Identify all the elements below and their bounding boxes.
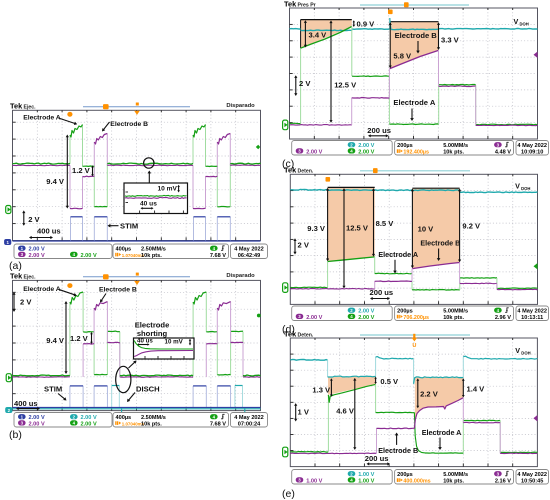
svg-text:10 mV: 10 mV xyxy=(158,186,178,193)
svg-text:Tek: Tek xyxy=(284,330,297,339)
svg-text:1 V: 1 V xyxy=(298,408,310,417)
svg-text:2.00 V: 2.00 V xyxy=(29,415,45,421)
svg-text:1.4 V: 1.4 V xyxy=(467,385,486,394)
svg-text:400µs: 400µs xyxy=(116,247,132,253)
svg-text:Tek: Tek xyxy=(284,165,297,174)
svg-text:DISCH: DISCH xyxy=(136,385,160,394)
svg-text:DOH: DOH xyxy=(521,350,530,355)
svg-text:10k pts.: 10k pts. xyxy=(443,478,464,484)
svg-text:2.00 V: 2.00 V xyxy=(358,315,374,321)
svg-text:10 V: 10 V xyxy=(418,225,435,234)
svg-text:Tek: Tek xyxy=(10,272,23,281)
svg-text:200 us: 200 us xyxy=(370,288,394,297)
svg-text:5.00MM/s: 5.00MM/s xyxy=(443,143,468,149)
svg-text:2.2 V: 2.2 V xyxy=(420,390,439,399)
svg-text:0.9 V: 0.9 V xyxy=(357,20,376,29)
svg-text:STIM: STIM xyxy=(44,385,62,394)
svg-text:3.4 V: 3.4 V xyxy=(309,31,328,40)
svg-text:Ejec.: Ejec. xyxy=(24,104,37,110)
svg-text:400 us: 400 us xyxy=(14,399,38,408)
svg-text:200µs: 200µs xyxy=(397,143,413,149)
svg-text:2.96 V: 2.96 V xyxy=(495,315,511,321)
svg-text:10k pts.: 10k pts. xyxy=(443,315,464,321)
svg-text:4 May 2022: 4 May 2022 xyxy=(234,415,264,421)
svg-text:2.50MM/s: 2.50MM/s xyxy=(141,247,166,253)
svg-text:7.68 V: 7.68 V xyxy=(210,253,226,259)
svg-text:Disparado: Disparado xyxy=(226,273,255,279)
svg-text:2.00 V: 2.00 V xyxy=(81,415,97,421)
svg-text:5.00MM/s: 5.00MM/s xyxy=(443,472,468,478)
svg-text:8.5 V: 8.5 V xyxy=(376,219,395,228)
svg-text:2.00 V: 2.00 V xyxy=(306,149,322,155)
svg-text:1.00 V: 1.00 V xyxy=(358,472,374,478)
svg-text:1.3 V: 1.3 V xyxy=(312,386,331,395)
svg-text:12.5 V: 12.5 V xyxy=(346,224,369,233)
svg-text:Disparado: Disparado xyxy=(226,103,255,109)
svg-text:9.3 V: 9.3 V xyxy=(307,224,326,233)
svg-text:10:50:45: 10:50:45 xyxy=(521,478,543,484)
svg-text:Electrode B: Electrode B xyxy=(420,239,460,248)
svg-text:2.00 V: 2.00 V xyxy=(358,143,374,149)
svg-text:DOH: DOH xyxy=(520,22,529,27)
svg-text:V: V xyxy=(515,346,520,355)
svg-text:Electrode B: Electrode B xyxy=(395,31,438,40)
svg-text:200 us: 200 us xyxy=(365,454,389,463)
svg-text:Electrode B: Electrode B xyxy=(110,121,148,128)
svg-text:2 V: 2 V xyxy=(28,215,40,224)
svg-text:4 May 2022: 4 May 2022 xyxy=(517,143,547,149)
svg-text:2 V: 2 V xyxy=(299,79,311,88)
svg-text:Tek: Tek xyxy=(284,0,297,9)
svg-text:9.4 V: 9.4 V xyxy=(46,336,65,345)
svg-text:1.2 V: 1.2 V xyxy=(72,166,91,175)
svg-text:2.00 V: 2.00 V xyxy=(29,421,45,427)
svg-text:40 us: 40 us xyxy=(137,338,153,345)
svg-text:2.00 V: 2.00 V xyxy=(358,149,374,155)
svg-text:Electrode A: Electrode A xyxy=(393,98,435,107)
svg-text:4 May 2022: 4 May 2022 xyxy=(517,309,547,315)
svg-text:Electrode A: Electrode A xyxy=(23,286,61,293)
svg-text:4 May 2022: 4 May 2022 xyxy=(517,472,547,478)
svg-text:12.5 V: 12.5 V xyxy=(334,81,357,90)
svg-text:(e): (e) xyxy=(282,488,295,500)
svg-text:200µs: 200µs xyxy=(397,472,413,478)
svg-text:V: V xyxy=(514,17,519,26)
svg-text:4 May 2022: 4 May 2022 xyxy=(234,247,264,253)
svg-text:4.48 V: 4.48 V xyxy=(495,149,511,155)
svg-text:40 us: 40 us xyxy=(140,201,157,208)
svg-text:Electrode A: Electrode A xyxy=(378,250,418,259)
svg-text:U: U xyxy=(412,343,416,349)
svg-text:2.00 V: 2.00 V xyxy=(306,315,322,321)
svg-text:400.000ms: 400.000ms xyxy=(403,478,430,484)
svg-text:200µs: 200µs xyxy=(397,309,413,315)
svg-text:Tek: Tek xyxy=(10,101,23,110)
svg-text:400µs: 400µs xyxy=(116,415,132,421)
svg-text:2.00 V: 2.00 V xyxy=(358,309,374,315)
svg-text:1.00 V: 1.00 V xyxy=(306,478,322,484)
svg-text:Deten.: Deten. xyxy=(298,168,314,174)
svg-text:200 us: 200 us xyxy=(367,126,391,135)
svg-text:10 mV: 10 mV xyxy=(165,338,184,345)
svg-text:10:13:11: 10:13:11 xyxy=(521,315,543,321)
svg-text:9.2 V: 9.2 V xyxy=(462,222,481,231)
svg-text:400 us: 400 us xyxy=(37,227,61,236)
svg-text:4.6 V: 4.6 V xyxy=(336,407,355,416)
svg-text:7.68 V: 7.68 V xyxy=(210,421,226,427)
svg-text:0.5 V: 0.5 V xyxy=(380,377,399,386)
svg-text:STIM: STIM xyxy=(120,222,138,231)
svg-text:10k pts.: 10k pts. xyxy=(141,253,162,259)
svg-text:5.8 V: 5.8 V xyxy=(393,52,412,61)
svg-text:9.4 V: 9.4 V xyxy=(46,177,65,186)
svg-text:Ejec.: Ejec. xyxy=(24,275,37,281)
svg-text:2 V: 2 V xyxy=(298,241,310,250)
svg-text:1.2 V: 1.2 V xyxy=(70,334,89,343)
svg-text:2.00 V: 2.00 V xyxy=(81,421,97,427)
svg-text:2.16 V: 2.16 V xyxy=(495,478,511,484)
svg-text:2.50MM/s: 2.50MM/s xyxy=(141,415,166,421)
svg-text:5.00MM/s: 5.00MM/s xyxy=(443,309,468,315)
svg-text:V: V xyxy=(515,182,520,191)
svg-text:(a): (a) xyxy=(9,260,22,272)
svg-text:10k pts.: 10k pts. xyxy=(141,421,162,427)
svg-text:07:00:24: 07:00:24 xyxy=(238,421,261,427)
svg-text:Electrode B: Electrode B xyxy=(99,287,137,294)
svg-text:2.00 V: 2.00 V xyxy=(81,253,97,259)
svg-text:192.400µs: 192.400µs xyxy=(403,149,429,155)
svg-text:10k pts.: 10k pts. xyxy=(443,149,464,155)
svg-text:3.3 V: 3.3 V xyxy=(441,36,460,45)
svg-text:10:09:10: 10:09:10 xyxy=(521,149,543,155)
svg-text:Electrode A: Electrode A xyxy=(422,428,462,437)
svg-text:DOH: DOH xyxy=(521,186,530,191)
svg-text:1.00 V: 1.00 V xyxy=(358,478,374,484)
svg-text:2 V: 2 V xyxy=(20,298,32,307)
svg-text:(b): (b) xyxy=(9,429,22,441)
svg-text:706.200µs: 706.200µs xyxy=(403,315,429,321)
svg-text:06:42:49: 06:42:49 xyxy=(238,253,260,259)
svg-text:Electrode A: Electrode A xyxy=(23,115,61,122)
svg-text:2.00 V: 2.00 V xyxy=(29,247,45,253)
svg-text:2.00 V: 2.00 V xyxy=(29,253,45,259)
